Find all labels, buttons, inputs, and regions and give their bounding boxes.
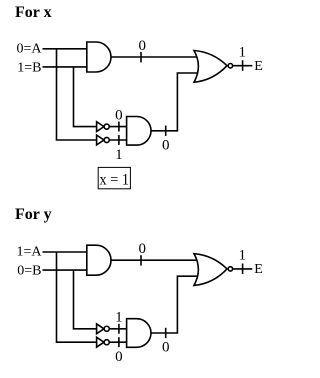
- svg-text:1: 1: [115, 147, 123, 163]
- svg-text:x = 1: x = 1: [100, 172, 130, 189]
- svg-text:0: 0: [115, 108, 123, 124]
- svg-text:0: 0: [162, 340, 170, 356]
- svg-text:1=B: 1=B: [17, 61, 41, 76]
- svg-text:0: 0: [115, 349, 123, 365]
- svg-text:1: 1: [239, 45, 247, 61]
- svg-text:1=A: 1=A: [16, 245, 42, 260]
- svg-text:0: 0: [138, 38, 146, 54]
- svg-text:0=A: 0=A: [16, 42, 42, 57]
- svg-text:E: E: [254, 262, 263, 277]
- svg-text:E: E: [254, 59, 263, 74]
- svg-text:1: 1: [239, 248, 247, 264]
- svg-text:For y: For y: [15, 206, 52, 223]
- svg-text:0=B: 0=B: [17, 264, 41, 279]
- svg-text:0: 0: [162, 137, 170, 153]
- svg-text:For x: For x: [15, 4, 52, 21]
- svg-text:0: 0: [138, 241, 146, 257]
- svg-text:1: 1: [115, 310, 123, 326]
